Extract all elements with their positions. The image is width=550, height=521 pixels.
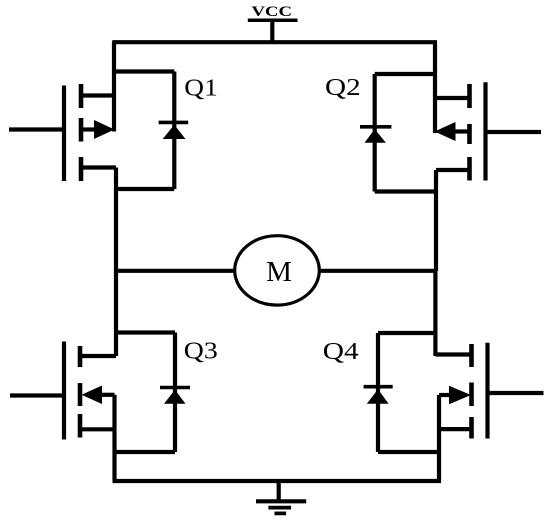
Q2 gate electrode <box>483 82 487 180</box>
Q1 gate electrode <box>62 86 66 182</box>
motor M ellipse <box>235 236 320 305</box>
diode D2 triangle <box>365 129 386 143</box>
wire Q3 source vertical to bottom rail <box>112 429 116 481</box>
diode D4 cathode bar <box>364 385 393 389</box>
svg-text:Q1: Q1 <box>184 74 218 101</box>
diode D4 triangle <box>367 389 389 404</box>
Q2 channel segment middle <box>467 124 472 144</box>
transistor Q4 <box>323 271 544 481</box>
transistor Q2 <box>325 42 541 271</box>
Q4 channel segment bottom <box>469 417 474 439</box>
Q1 channel segment top <box>79 84 84 108</box>
Q4 gate lead <box>488 391 544 395</box>
Q2 source lead <box>436 168 470 172</box>
Q1 drain lead <box>81 93 114 97</box>
Q3 gate lead <box>10 393 64 397</box>
VCC supply bar <box>248 18 298 22</box>
svg-text:Q4: Q4 <box>323 338 359 365</box>
Q4 body lead <box>439 393 451 397</box>
ground bar 2 <box>268 506 291 510</box>
wire Q3 top box <box>116 330 175 334</box>
Q4 source lead <box>439 427 472 431</box>
body diode D3 vertical wire <box>173 333 177 453</box>
Q1 body lead <box>81 127 97 131</box>
Q3 channel segment middle <box>78 383 83 406</box>
Q2 body lead <box>453 129 470 133</box>
Q1 channel segment bottom <box>79 157 84 181</box>
transistor Q3 <box>10 271 218 481</box>
Q2 gate lead <box>486 130 542 134</box>
diode D1 triangle <box>163 125 186 139</box>
Q3 channel segment bottom <box>78 414 83 438</box>
wire Q1 top box <box>114 69 174 73</box>
wire Q3 body-source vertical <box>112 395 116 430</box>
Q1 channel segment middle <box>79 118 84 142</box>
wire Q1 bottom box <box>116 187 174 191</box>
Q1 source lead <box>81 165 116 169</box>
Q1 gate lead <box>9 127 64 131</box>
motor rail right wire <box>319 269 436 273</box>
svg-text:Q2: Q2 <box>325 74 361 101</box>
diode D3 triangle <box>164 390 186 404</box>
ground bar 1 <box>256 499 306 503</box>
body diode D2 vertical wire <box>373 74 377 192</box>
wire Q4 bottom box <box>378 450 439 454</box>
wire VCC stub <box>270 20 274 42</box>
wire Q2 bottom box <box>375 189 436 193</box>
Q2 body arrow <box>435 122 456 141</box>
motor M <box>235 236 320 305</box>
Q3 body arrow <box>82 386 103 405</box>
ground bar 3 <box>275 512 287 516</box>
wire ground stub <box>277 481 281 501</box>
motor rail left wire <box>116 269 236 273</box>
Q2 channel segment bottom <box>467 157 472 181</box>
Q4 gate electrode <box>485 343 489 439</box>
wire Q4 body-source vertical to bottom rail <box>437 395 441 481</box>
diode D1 cathode bar <box>159 121 189 125</box>
diode D2 cathode bar <box>360 125 391 129</box>
body diode D4 vertical wire <box>376 333 380 452</box>
wire Q4 drain drop from motor rail <box>433 271 437 356</box>
wire Q2 drain drop from top rail <box>433 42 437 133</box>
wire Q4 top box <box>378 331 435 335</box>
Q4 channel segment middle <box>469 383 474 407</box>
wire bottom rail <box>113 479 442 483</box>
Q3 channel segment top <box>78 346 83 367</box>
ground <box>256 481 306 513</box>
wire top rail <box>112 40 437 44</box>
svg-text:VCC: VCC <box>252 4 293 20</box>
transistor Q1 <box>9 42 218 271</box>
Q2 channel segment top <box>467 84 472 108</box>
Q3 gate electrode <box>62 342 66 440</box>
Q3 drain lead <box>80 354 116 358</box>
Q1 body arrow <box>94 120 115 139</box>
body diode D1 vertical wire <box>172 72 176 190</box>
wire Q3 bottom box <box>115 450 176 454</box>
wire Q1 source vertical to motor rail <box>114 168 118 272</box>
Q4 channel segment top <box>469 344 474 367</box>
wire Q2 source vertical to motor rail <box>434 170 438 271</box>
Q3 body lead <box>100 393 115 397</box>
Q3 source lead <box>80 427 115 431</box>
diode D3 cathode bar <box>160 386 190 390</box>
svg-text:M: M <box>266 256 292 288</box>
wire Q3 drain drop from motor rail <box>114 271 118 356</box>
wire Q2 top box <box>375 72 435 76</box>
wire Q1 drain drop from top rail <box>112 42 116 132</box>
Q4 drain lead <box>435 352 471 356</box>
svg-text:Q3: Q3 <box>184 338 218 365</box>
Q4 body arrow <box>449 386 471 405</box>
Q2 drain lead <box>435 96 470 100</box>
